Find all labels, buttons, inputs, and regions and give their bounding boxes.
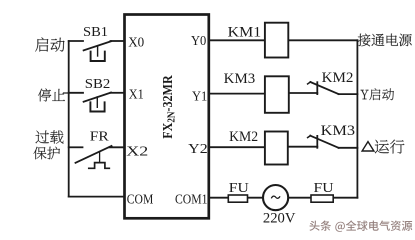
net label delta yunxing (delta run) [375,140,405,154]
fuse FU2 [311,195,333,202]
AC source tilde [271,196,280,198]
node label baohu (protect) [34,147,61,160]
wire: SB2 row left segment [69,92,83,94]
contact KM2 (NC) tick [316,82,318,94]
fuse FU1 [228,195,247,202]
svg-text:220V: 220V [263,210,296,226]
pushbutton SB2 contact bar [84,93,111,102]
PLC U1 FX2N-32MR body [125,15,209,219]
contactor coil KM1 [265,23,288,58]
wire: KM3 coil to KM2 contact [289,92,318,94]
svg-text:SB2: SB2 [85,76,111,91]
contact KM3 (NC) bar [310,136,338,148]
pushbutton SB2 actuator cap [90,102,104,111]
contact KM2 (NC) tip hook [308,82,311,84]
wire: fuse FU2 to right bus [333,197,357,199]
svg-text:X0: X0 [128,36,144,51]
wire: KM2 coil to KM3 contact [288,146,318,148]
wire: right supply bus vertical [356,40,358,197]
node label tingzhi (stop) [38,89,65,102]
svg-text:Y0: Y0 [191,34,206,49]
wire: KM1 coil to right bus [288,39,357,41]
svg-text:FU: FU [229,181,249,196]
wire: FR row right segment to X2 [110,146,125,148]
svg-text:FX2N-32MR: FX2N-32MR [161,75,178,139]
thermal relay FR actuator stem [99,152,101,162]
wire: left supply bus vertical [68,41,70,197]
wire: AC source to fuse FU2 [288,197,311,199]
svg-text:KM2: KM2 [322,70,354,86]
svg-text:KM3: KM3 [224,71,256,87]
pushbutton SB2 actuator stem [96,97,98,107]
svg-text:Y1: Y1 [192,90,207,105]
svg-text:KM1: KM1 [228,24,262,40]
contact KM3 (NC) tip hook [308,136,311,138]
wire: COM row from bus to PLC [69,196,125,198]
wire: SB1 row right segment to X0 [111,40,125,42]
svg-text:Y2: Y2 [188,142,208,157]
svg-text:SB1: SB1 [83,24,108,39]
wire: KM3 contact to right bus [339,147,358,149]
svg-text:X1: X1 [129,88,144,103]
net label Y qidong (Y start) [361,88,395,100]
contact KM2 (NC) bar [310,82,338,94]
thermal relay FR contact bar [76,146,112,163]
wire: Y2 row to KM2 coil [209,146,265,148]
node label guozai (overload) [36,130,64,143]
pushbutton SB1 contact bar [84,41,111,50]
contact KM3 (NC) tick [316,136,318,148]
pushbutton SB1 actuator stem [97,46,99,56]
svg-text:KM3: KM3 [321,123,356,139]
wire: KM2 contact to right bus [339,93,358,95]
wire: SB1 row left segment [69,40,83,42]
node label qidong (start) [35,38,64,52]
wire: fuse FU1 to AC source [248,197,264,199]
svg-text:COM: COM [127,191,154,206]
thermal relay FR actuator bump [89,163,110,169]
watermark toutiao [309,220,413,232]
wire: SB2 row right segment to X1 [111,92,125,94]
svg-text:FR: FR [90,128,110,143]
delta symbol [362,142,374,151]
svg-text:KM2: KM2 [229,129,258,145]
wire: FR row left segment [69,146,83,148]
wire: stop label tick [64,92,69,94]
net label jietong dianyuan (power on) [358,34,412,47]
contactor coil KM2 [265,132,288,165]
svg-text:FU: FU [314,181,334,196]
wire: Y0 row to KM1 coil [209,39,265,41]
wire: Y1 row to KM3 coil [209,93,265,95]
pushbutton SB1 actuator cap [91,52,105,61]
svg-text:X2: X2 [126,144,148,159]
AC source 220V circle [263,185,288,210]
wire: COM1 to fuse FU1 [209,197,229,199]
svg-text:COM1: COM1 [175,192,208,207]
contactor coil KM3 [265,76,289,113]
